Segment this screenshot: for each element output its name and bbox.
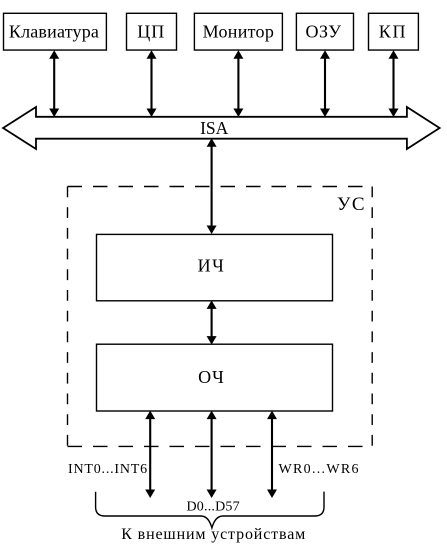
svg-text:УС: УС bbox=[337, 194, 366, 215]
svg-text:ИЧ: ИЧ bbox=[198, 256, 226, 276]
svg-text:WR0...WR6: WR0...WR6 bbox=[279, 462, 360, 477]
svg-text:ОЧ: ОЧ bbox=[198, 367, 225, 387]
svg-text:INT0...INT6: INT0...INT6 bbox=[68, 462, 148, 477]
svg-text:Монитор: Монитор bbox=[203, 21, 275, 41]
svg-text:КП: КП bbox=[379, 21, 407, 41]
svg-text:D0...D57: D0...D57 bbox=[187, 499, 240, 514]
svg-text:Клавиатура: Клавиатура bbox=[9, 21, 99, 41]
svg-text:ISA: ISA bbox=[200, 118, 229, 138]
svg-text:ОЗУ: ОЗУ bbox=[305, 21, 341, 41]
svg-text:ЦП: ЦП bbox=[137, 21, 165, 41]
svg-text:К внешним устройствам: К внешним устройствам bbox=[121, 526, 306, 543]
